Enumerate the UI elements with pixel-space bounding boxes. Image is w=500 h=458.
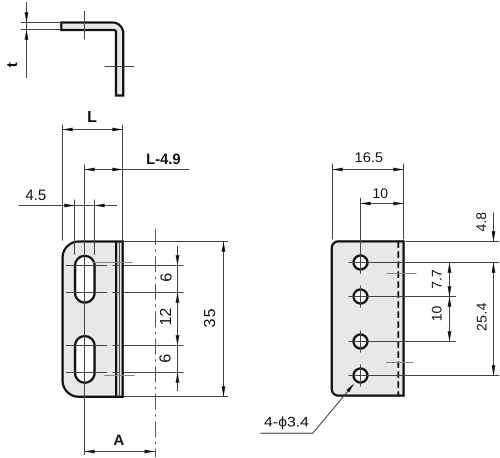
svg-text:10: 10 — [372, 185, 388, 201]
L arrow right — [112, 128, 122, 132]
7.7 arrow down — [448, 286, 452, 296]
25.4 arrow down — [492, 365, 496, 375]
35 arrow down — [222, 386, 226, 396]
L-profile side view (top) — [61, 22, 123, 95]
front view plate (left) — [63, 242, 123, 397]
A arrow left — [85, 450, 95, 454]
16.5 left extension — [332, 164, 334, 240]
hole4 projection mark — [104, 375, 135, 377]
10 arrow down — [448, 331, 452, 341]
4.8 dimension line — [493, 213, 495, 242]
svg-text:10: 10 — [428, 306, 444, 322]
L dimension line — [63, 129, 123, 131]
slot1 bottom arc centerline — [66, 292, 184, 294]
hole 4 — [354, 369, 368, 383]
svg-text:6: 6 — [159, 273, 176, 282]
slot1 top arc centerline — [66, 265, 184, 267]
4-phi3.4 leader line — [260, 388, 350, 433]
t arrow down — [25, 12, 29, 22]
slot 2 — [75, 336, 95, 383]
L-4.9 arrow right — [112, 168, 122, 172]
A dimension line — [85, 451, 155, 453]
hole4 vertical cross — [360, 365, 362, 387]
hole1 projection mark — [93, 262, 133, 264]
slot 1 — [75, 256, 95, 303]
10 arrow up — [448, 297, 452, 307]
t arrow up — [25, 30, 29, 40]
svg-text:t: t — [4, 62, 21, 67]
25.4 dimension line — [493, 263, 495, 376]
7.7 arrow up — [448, 263, 452, 273]
svg-text:7.7: 7.7 — [428, 269, 444, 289]
L arrow left — [63, 128, 73, 132]
svg-text:6: 6 — [158, 354, 175, 363]
10 arrow right — [393, 202, 403, 206]
16.5 arrow left — [333, 168, 343, 172]
svg-text:4.8: 4.8 — [473, 212, 489, 232]
4.5 arrow left-pointing — [95, 204, 105, 208]
slot vertical centerline — [84, 165, 86, 455]
svg-text:16.5: 16.5 — [355, 149, 384, 165]
hole1 vertical centerline + 10 extension — [360, 198, 362, 274]
hole 2 — [354, 290, 368, 304]
4.5 arrow right-pointing — [64, 204, 74, 208]
4.5 extension left — [74, 200, 76, 255]
A arrow right — [145, 450, 155, 454]
bend line (thick) — [115, 242, 117, 397]
back view plate (right) — [332, 241, 404, 395]
10 top dimension line — [361, 203, 404, 205]
hole3 horizontal centerline — [349, 341, 457, 343]
25.4 arrow up — [492, 263, 496, 273]
16.5 arrow right — [393, 168, 403, 172]
arrow down at slot2 top — [176, 335, 180, 345]
4.5 extension right — [94, 200, 96, 255]
dashed bend line — [397, 241, 399, 395]
t dimension line — [26, 2, 28, 78]
svg-text:25.4: 25.4 — [473, 302, 489, 331]
centerline cross on horizontal leg — [84, 11, 86, 40]
hole 1 — [354, 256, 368, 270]
35 bottom extension — [124, 396, 228, 398]
35 dimension line — [223, 242, 225, 397]
centerline cross on vertical leg — [105, 66, 135, 68]
t extension line top — [21, 22, 61, 24]
top edge right extension — [406, 241, 499, 243]
arrow up at slot2 bottom — [176, 373, 180, 383]
4.5 dimension line — [19, 205, 118, 207]
arrow down at slot1 top — [176, 255, 180, 265]
4.8 arrow down — [492, 231, 496, 241]
slot projection mark upper — [387, 273, 417, 275]
svg-text:A: A — [113, 432, 124, 449]
16.5 dimension line — [333, 169, 404, 171]
axis centerline (dash-dot) — [155, 229, 157, 457]
svg-text:L-4.9: L-4.9 — [146, 151, 181, 168]
hole4 horizontal centerline — [349, 375, 500, 377]
7.7 and 10 dimension line — [449, 263, 451, 342]
slot2 bottom arc centerline — [66, 372, 184, 374]
bend tangent thin line — [118, 242, 120, 397]
hole2 horizontal centerline — [349, 296, 457, 298]
hole3 vertical cross — [360, 331, 362, 353]
L-4.9 dimension line — [85, 169, 190, 171]
35 top extension — [124, 241, 228, 243]
L dimension right extension — [122, 125, 124, 241]
35 arrow up — [222, 242, 226, 252]
svg-text:35: 35 — [202, 307, 219, 327]
6/12/6 dimension line — [177, 246, 179, 391]
leader arrow — [346, 382, 355, 392]
L-4.9 arrow left — [85, 168, 95, 172]
hole 3 — [354, 335, 368, 349]
svg-text:12: 12 — [158, 308, 175, 326]
hole2 vertical cross — [360, 286, 362, 308]
slot projection mark lower — [386, 362, 414, 364]
arrow up at slot1 bottom — [176, 293, 180, 303]
10 arrow left — [361, 202, 371, 206]
svg-text:L: L — [87, 109, 97, 126]
svg-text:4.5: 4.5 — [25, 187, 46, 204]
hole1 horizontal centerline — [349, 262, 500, 264]
t extension line bottom — [21, 29, 61, 31]
L dimension left extension — [62, 125, 64, 241]
16.5 right extension — [403, 164, 405, 240]
svg-text:4-ϕ3.4: 4-ϕ3.4 — [264, 413, 309, 429]
slot2 top arc centerline — [66, 345, 184, 347]
